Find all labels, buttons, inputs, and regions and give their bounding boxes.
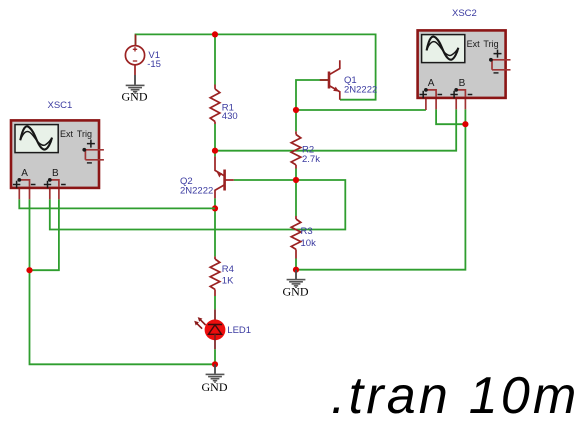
wire R3 bottom to ground node [295, 259, 297, 270]
node Q2 collector / XSC1 A+ junction [212, 205, 218, 211]
svg-text:LED1: LED1 [227, 325, 251, 336]
node top rail / R1 junction [212, 31, 218, 37]
spice directive .tran 10m [331, 367, 579, 425]
XSC2 pin stub B+ [455, 97, 457, 109]
svg-text:2.7k: 2.7k [302, 154, 320, 165]
svg-text:GND: GND [283, 284, 309, 298]
svg-text:10k: 10k [301, 238, 317, 249]
svg-text:XSC2: XSC2 [452, 8, 477, 19]
svg-text:-15: -15 [147, 59, 161, 70]
svg-text:2N2222: 2N2222 [344, 85, 377, 96]
svg-text:R3: R3 [301, 226, 313, 237]
oscilloscope XSC1 [11, 120, 104, 199]
label R4 value 1K [222, 264, 234, 286]
XSC1 pin stub A- [29, 187, 31, 199]
wire XSC1 A- down to LED cathode rail [30, 199, 216, 364]
label Q1 value 2N2222 [344, 75, 377, 96]
ground under R3 [283, 270, 309, 299]
XSC2 ext trig - mark [494, 72, 499, 74]
resistor R2 [291, 131, 301, 168]
wire XSC1 B+ to Q2 base loop (crosses R3) [50, 180, 346, 230]
node R2 bottom / Q2 base junction [293, 177, 299, 183]
XSC2 pin stub B- [464, 97, 466, 109]
resistor R4 [210, 256, 220, 296]
svg-text:1K: 1K [222, 275, 234, 286]
wire R1 branch vertical [214, 34, 216, 84]
svg-text:430: 430 [222, 111, 238, 122]
XSC1 ext trig terminal [84, 150, 104, 160]
resistor R1 [210, 85, 220, 125]
wire XSC1 B- tie to A- [30, 199, 59, 270]
label R2 value 2.7k [302, 144, 320, 165]
wire Q2 emitter node to XSC2 B+ (horizontal, crosses R2) [215, 109, 456, 150]
oscilloscope XSC2 [418, 30, 511, 110]
transistor Q1 [320, 60, 340, 99]
XSC2 ext trig terminal [491, 60, 511, 70]
wire XSC2 A- to B- tie [436, 109, 465, 124]
node XSC1 A-/B- junction [26, 267, 32, 273]
LED LED1 [194, 309, 225, 349]
svg-text:A: A [21, 168, 28, 179]
label R1 value 430 [222, 103, 238, 123]
wire ground node to XSC2 A-/B- [296, 124, 465, 270]
XSC2 channel B terminal hook [456, 90, 465, 97]
XSC2 channel B +/- marks [450, 91, 472, 98]
resistor R3 [291, 216, 301, 259]
XSC1 ext trig - mark [87, 162, 92, 164]
node XSC2 A-/B- junction [462, 121, 468, 127]
XSC1 channel B terminal hook [50, 180, 59, 187]
XSC2 channel A terminal hook [426, 90, 436, 97]
label R3 value 10k [301, 226, 317, 249]
wire R2 top node to XSC2 A+ [296, 109, 426, 111]
wire top rail from V1 to Q1 emitter loop [136, 34, 376, 99]
XSC1 channel A terminal hook [19, 180, 29, 187]
label Q2 value 2N2222 [180, 176, 213, 196]
label V1 value -15 [147, 50, 161, 70]
wire R1 bottom to Q2 emitter node [214, 124, 216, 156]
svg-text:A: A [428, 78, 435, 89]
svg-text:GND: GND [122, 90, 148, 104]
XSC2 pin stub A+ [425, 97, 427, 110]
wire XSC1 A+ to Q2 collector node [19, 199, 215, 208]
XSC1 pin stub B- [58, 187, 60, 199]
wire Q1 base to R2 top node [296, 80, 329, 131]
label LED1 [227, 325, 251, 336]
XSC2 body [418, 30, 506, 98]
XSC2 pin stub A- [435, 97, 437, 109]
svg-text:Ext Trig: Ext Trig [467, 39, 499, 49]
wire R4 bottom to LED anode [214, 296, 216, 309]
ground under LED1 [202, 364, 228, 394]
svg-text:R4: R4 [222, 264, 234, 275]
XSC1 channel A +/- marks [13, 181, 36, 188]
node LED cathode / XSC1 A- / ground junction [212, 361, 218, 367]
wire Q2 collector down through LED branch [214, 198, 216, 256]
XSC1 channel B +/- marks [44, 181, 66, 188]
wire R2 bottom to Q2 base line and R3 top [295, 169, 297, 217]
XSC1 screen [15, 125, 58, 153]
svg-text:GND: GND [202, 380, 228, 394]
node R1 / Q2 emitter / scope B junction [212, 148, 218, 154]
ground under V1 [122, 75, 148, 104]
wire LED cathode to ground node [214, 349, 216, 364]
node R3 bottom / ground junction [293, 267, 299, 273]
svg-text:2N2222: 2N2222 [180, 186, 213, 197]
XSC1 pin stub A+ [18, 187, 20, 199]
svg-text:.tran 10m: .tran 10m [331, 367, 579, 425]
XSC2 screen [422, 35, 465, 63]
node R2 top / Q1 base / XSC2 A+ junction [293, 107, 299, 113]
XSC2 ext trig + mark [494, 50, 502, 58]
XSC1 body [11, 120, 99, 187]
voltage source V1 [125, 34, 144, 75]
label XSC1 [48, 100, 73, 111]
label XSC2 [452, 8, 477, 19]
svg-text:B: B [52, 168, 59, 179]
svg-text:XSC1: XSC1 [48, 100, 73, 111]
transistor Q2 [215, 156, 234, 198]
XSC1 pin stub B+ [49, 187, 51, 199]
XSC1 ext trig + mark [87, 140, 95, 148]
svg-text:Ext Trig: Ext Trig [60, 129, 92, 139]
XSC2 channel A +/- marks [420, 91, 443, 98]
svg-text:B: B [459, 78, 466, 89]
